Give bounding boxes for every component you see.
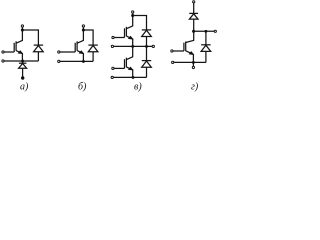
- node junction dot diode branch (circuit g): [204, 30, 207, 33]
- terminal ring bottom left (circuit b): [58, 60, 60, 62]
- wire gate lead lower (circuit v): [114, 67, 125, 69]
- node junction dot collector top (circuit v): [131, 14, 134, 17]
- wire gate lead (circuit a): [4, 51, 14, 53]
- wire emitter vertical lower (circuit v): [132, 69, 134, 77]
- diode VD4 upper (circuit v): [142, 30, 152, 47]
- wire top rail right (circuit g): [194, 30, 215, 32]
- wire collector lead vertical (circuit a): [21, 27, 23, 41]
- svg-text:а): а): [20, 82, 29, 93]
- wire gate lead (circuit g): [173, 50, 184, 52]
- wire collector lead vertical lower (circuit v): [132, 46, 134, 57]
- terminal dot bottom (circuit a): [21, 76, 24, 79]
- terminal ring bottom (circuit g): [192, 66, 194, 68]
- node junction dot emitter (circuit g): [192, 61, 195, 64]
- wire emitter vertical (circuit g): [192, 54, 194, 62]
- terminal ring gate (circuit a): [2, 51, 4, 53]
- wire bottom stub (circuit g): [192, 62, 194, 66]
- terminal ring gate lower (circuit v): [112, 67, 114, 69]
- diode VD6 series top (circuit g): [189, 13, 198, 40]
- wire emitter vertical (circuit a): [21, 53, 23, 61]
- wire emitter vertical upper (circuit v): [132, 39, 134, 47]
- transistor VT2 IGBT (circuit b): [75, 40, 84, 54]
- terminal ring top (circuit v): [132, 11, 134, 13]
- wire bottom rail (circuit a): [4, 60, 38, 62]
- transistor VT3 IGBT upper (circuit v): [125, 26, 134, 40]
- node junction dot collector (circuit g): [192, 30, 195, 33]
- wire bottom rail (circuit v): [113, 76, 146, 78]
- diode VD1 antiparallel (circuit a): [34, 45, 44, 61]
- node junction dot collector (circuit a): [21, 28, 24, 31]
- terminal ring gate (circuit g): [171, 50, 173, 52]
- wire top branch to diode column (circuit v): [133, 16, 147, 30]
- node junction dot emitter (circuit a): [21, 60, 24, 63]
- diode VD7 antiparallel (circuit g): [201, 45, 211, 63]
- wire top branch to diode (circuit a): [22, 30, 38, 45]
- wire top branch to diode (circuit b): [83, 30, 93, 45]
- terminal ring top (circuit b): [82, 25, 84, 27]
- diode VD2 series bottom (circuit a): [19, 61, 27, 78]
- wire diode branch vertical (circuit g): [205, 31, 207, 45]
- node junction dot emitter (circuit b): [82, 60, 85, 63]
- svg-text:б): б): [78, 82, 87, 93]
- svg-text:в): в): [134, 82, 142, 93]
- wire diode column to lower diode (circuit v): [146, 46, 148, 60]
- wire gate lead upper (circuit v): [114, 37, 124, 39]
- terminal ring bottom left (circuit g): [172, 61, 174, 63]
- node junction dot collector (circuit b): [82, 28, 85, 31]
- transistor VT5 IGBT (circuit g): [184, 40, 194, 55]
- terminal ring bottom left (circuit v): [111, 76, 113, 78]
- terminal ring gate upper (circuit v): [112, 36, 114, 38]
- terminal ring top (circuit a): [21, 25, 23, 27]
- transistor VT4 IGBT lower (circuit v): [125, 57, 134, 71]
- wire top lead (circuit g): [193, 3, 195, 13]
- terminal ring middle left (circuit v): [111, 45, 113, 47]
- svg-text:г): г): [191, 82, 199, 93]
- wire bottom rail (circuit b): [60, 60, 93, 62]
- terminal ring middle right (circuit v): [152, 45, 154, 47]
- wire collector lead vertical (circuit b): [82, 27, 84, 41]
- wire gate lead (circuit b): [60, 51, 75, 53]
- wire emitter vertical (circuit b): [82, 53, 84, 61]
- wire bottom rail (circuit g): [174, 61, 206, 63]
- terminal ring top (circuit g): [193, 1, 195, 3]
- terminal ring bottom left (circuit a): [2, 60, 4, 62]
- node junction dot diode column (circuit v): [145, 45, 148, 48]
- wire collector lead vertical top (circuit v): [132, 13, 134, 26]
- node junction dot emitter upper (circuit v): [131, 45, 134, 48]
- transistor VT1 IGBT (circuit a): [14, 40, 23, 54]
- wire middle rail (circuit v): [114, 45, 153, 47]
- node junction dot emitter lower (circuit v): [132, 76, 135, 79]
- diode VD3 antiparallel (circuit b): [88, 45, 98, 61]
- diode VD5 lower (circuit v): [142, 61, 152, 78]
- terminal ring gate (circuit b): [58, 51, 60, 53]
- terminal ring top right (circuit g): [214, 30, 216, 32]
